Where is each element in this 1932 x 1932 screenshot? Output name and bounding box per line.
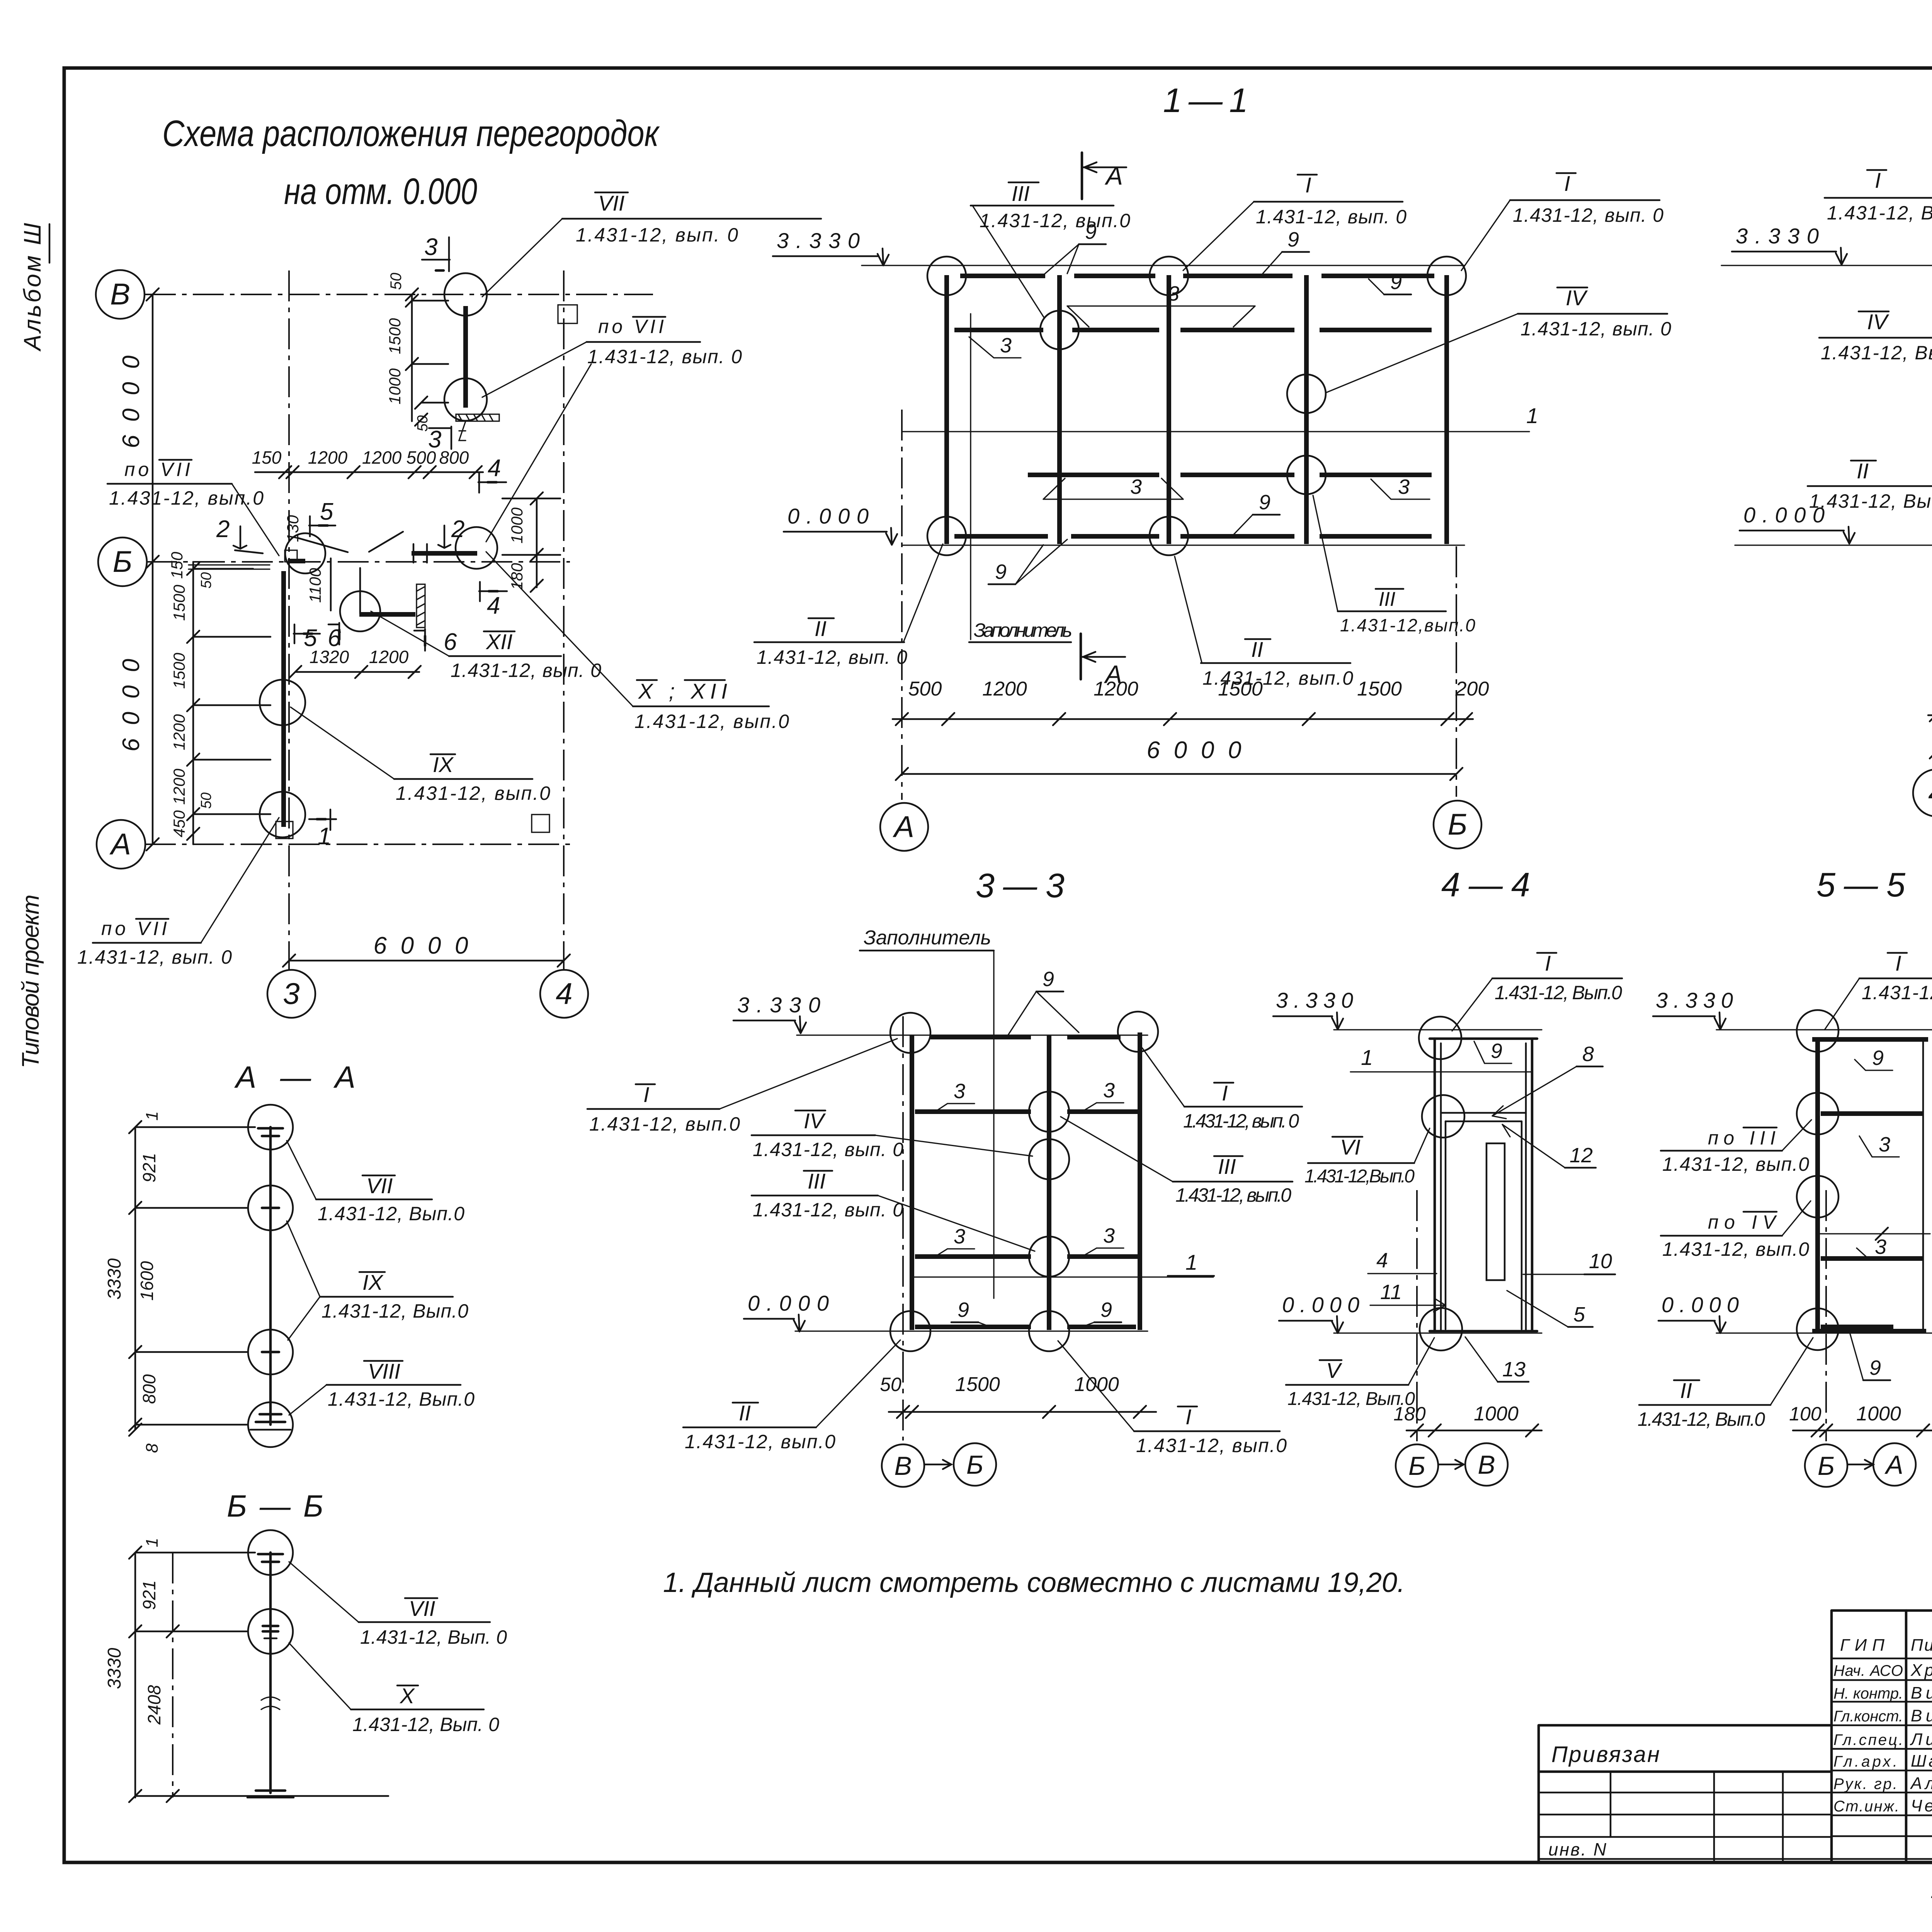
album underline bbox=[49, 224, 51, 263]
label III top-left bbox=[971, 181, 1130, 318]
svg-text:I: I bbox=[643, 1082, 650, 1107]
svg-text:V: V bbox=[1326, 1358, 1342, 1383]
small label 3 right bbox=[1371, 475, 1430, 499]
dim 1000/180 right bbox=[502, 498, 560, 587]
axis А dash-dot bbox=[901, 410, 903, 800]
svg-text:1200: 1200 bbox=[369, 647, 409, 667]
hatched bar right bbox=[417, 584, 425, 628]
small square on А axis right bbox=[532, 815, 549, 832]
svg-text:1.431-12, Вып. 0: 1.431-12, Вып. 0 bbox=[352, 1714, 499, 1735]
svg-text:Хрупало: Хрупало bbox=[1910, 1661, 1932, 1680]
svg-text:Б: Б bbox=[966, 1450, 983, 1480]
ring 4 bbox=[248, 1402, 293, 1447]
grid circle 3 bbox=[267, 970, 315, 1018]
leader ring on VII top bbox=[444, 273, 487, 316]
svg-text:800: 800 bbox=[439, 447, 469, 468]
partition bar bbox=[269, 1553, 272, 1793]
svg-text:VII: VII bbox=[366, 1173, 393, 1198]
svg-text:180: 180 bbox=[508, 563, 526, 590]
svg-text:Рук. гр.: Рук. гр. bbox=[1833, 1776, 1897, 1793]
svg-text:А: А bbox=[893, 810, 914, 844]
bottom rail bbox=[915, 1325, 1136, 1329]
ring 2 bbox=[248, 1609, 293, 1654]
section cut 2 right bbox=[438, 516, 464, 548]
svg-text:9: 9 bbox=[1491, 1039, 1502, 1063]
leader ring on VII bottom bbox=[444, 378, 487, 421]
svg-text:13: 13 bbox=[1502, 1358, 1526, 1381]
ring bottom bbox=[1420, 1308, 1462, 1350]
grid circle Б bbox=[98, 537, 147, 586]
ring at А end bbox=[260, 792, 305, 837]
svg-text:1200: 1200 bbox=[308, 447, 348, 468]
bottom rail bbox=[1812, 1329, 1926, 1333]
level line 3.330 bbox=[862, 265, 1464, 266]
bottom dim line bbox=[135, 1795, 388, 1797]
svg-text:3: 3 bbox=[1398, 475, 1410, 498]
svg-text:1.431-12, вып. 0: 1.431-12, вып. 0 bbox=[1183, 1110, 1299, 1132]
axis line Б bbox=[146, 561, 570, 563]
right edge bbox=[1922, 1039, 1924, 1331]
dim chain bbox=[889, 1411, 1156, 1413]
small square below А ring bbox=[276, 821, 293, 838]
svg-text:5: 5 bbox=[320, 498, 333, 525]
svg-text:1.431-12,Вып.0: 1.431-12,Вып.0 bbox=[1304, 1166, 1415, 1187]
svg-text:1000: 1000 bbox=[1474, 1403, 1519, 1425]
partition wall VII upper bbox=[463, 306, 468, 408]
label II bottom-mid bbox=[1175, 556, 1353, 689]
small 3 r2 b bbox=[1082, 1224, 1124, 1257]
svg-text:1. Данный лист смотреть совмес: 1. Данный лист смотреть совместно с лист… bbox=[663, 1567, 1405, 1598]
svg-text:I: I bbox=[1564, 171, 1570, 196]
svg-text:9: 9 bbox=[957, 1298, 969, 1321]
label по VII upper right bbox=[482, 316, 742, 542]
label I top bbox=[1825, 951, 1932, 1030]
svg-text:1.431-12, вып. 0: 1.431-12, вып. 0 bbox=[753, 1199, 903, 1221]
svg-text:1.431-12, вып. 0: 1.431-12, вып. 0 bbox=[1513, 204, 1663, 226]
svg-text:Нач. АСО: Нач. АСО bbox=[1833, 1662, 1903, 1679]
partition top double lines at Б bbox=[189, 565, 270, 569]
small 9 bottom a bbox=[951, 1298, 992, 1328]
break squiggle bbox=[261, 1697, 280, 1709]
svg-text:II: II bbox=[815, 616, 827, 641]
axis line 3 vertical bbox=[288, 270, 290, 970]
svg-text:100: 100 bbox=[1789, 1403, 1821, 1425]
axis Б dash-dot bbox=[1825, 1190, 1827, 1441]
svg-text:3 — 3: 3 — 3 bbox=[976, 866, 1065, 905]
small 9 top bbox=[1008, 968, 1079, 1036]
label IV right bbox=[1326, 286, 1671, 393]
svg-text:9: 9 bbox=[1872, 1046, 1884, 1070]
ring 2 bbox=[248, 1185, 293, 1230]
bottom tee bbox=[256, 1421, 285, 1423]
dim chain bbox=[893, 718, 1473, 720]
label I left bbox=[1825, 168, 1932, 270]
level mark 3.330 bbox=[773, 228, 889, 265]
svg-text:3330: 3330 bbox=[104, 1648, 125, 1689]
door frame top double bbox=[1441, 1113, 1526, 1121]
svg-text:I: I bbox=[1545, 951, 1551, 975]
cut mark А top bbox=[1082, 153, 1126, 199]
svg-text:4: 4 bbox=[487, 592, 500, 619]
ring bottom-left bbox=[890, 1311, 930, 1351]
grid circle В with arrow bbox=[882, 1444, 951, 1487]
svg-text:IV: IV bbox=[1566, 286, 1588, 310]
ring mid IV bbox=[1029, 1139, 1069, 1179]
label VI bbox=[1304, 1128, 1430, 1187]
svg-text:II: II bbox=[1680, 1378, 1692, 1403]
section cut 1 bbox=[309, 810, 336, 850]
small label 9 c bbox=[1369, 270, 1411, 294]
level mark 0.000 bbox=[1740, 503, 1855, 544]
svg-text:3.330: 3.330 bbox=[1276, 988, 1353, 1012]
svg-text:1.431-12, вып. 0: 1.431-12, вып. 0 bbox=[757, 646, 907, 668]
level mark 3.330 bbox=[733, 993, 820, 1033]
label III left bbox=[752, 1169, 1035, 1251]
top tee bbox=[258, 1553, 283, 1556]
small label 3 mid bbox=[1043, 475, 1183, 499]
axis Б dash-dot bbox=[1456, 546, 1457, 797]
svg-text:1.431-12, вып.0: 1.431-12, вып.0 bbox=[1662, 1153, 1809, 1175]
level line 3.330 bbox=[1721, 265, 1932, 266]
svg-text:Черкасова: Черкасова bbox=[1911, 1796, 1932, 1815]
grid circle 4 bbox=[1913, 769, 1932, 816]
small square at Б partition bbox=[285, 550, 297, 562]
small 10 bbox=[1523, 1250, 1615, 1274]
mid post bbox=[1047, 1036, 1051, 1330]
level mark 0.000 bbox=[784, 504, 897, 545]
svg-text:Б: Б bbox=[1818, 1451, 1835, 1481]
filler label bbox=[860, 927, 994, 1298]
vertical connector bbox=[359, 568, 361, 614]
svg-text:Лисичкин: Лисичкин bbox=[1910, 1730, 1932, 1749]
door slot bbox=[1486, 1143, 1505, 1280]
title block: staff table frame bbox=[1832, 1611, 1932, 1862]
svg-text:450: 450 bbox=[170, 810, 188, 837]
svg-text:Ст.инж.: Ст.инж. bbox=[1833, 1798, 1899, 1815]
svg-text:Заполнитель: Заполнитель bbox=[974, 619, 1072, 641]
ring right IV bbox=[1287, 374, 1326, 413]
filler label bbox=[969, 619, 1072, 642]
partition wall IX (Б to А) bbox=[281, 571, 286, 827]
svg-text:9: 9 bbox=[995, 560, 1007, 583]
rail row2 bbox=[915, 1254, 1138, 1259]
svg-text:1.431-12, Вып. 0: 1.431-12, Вып. 0 bbox=[360, 1626, 507, 1648]
small 8 bbox=[1492, 1043, 1603, 1119]
svg-text:I: I bbox=[1875, 168, 1881, 192]
svg-text:1500: 1500 bbox=[1357, 678, 1402, 700]
svg-text:Б: Б bbox=[1448, 807, 1468, 841]
ring on X/XII bbox=[340, 591, 380, 631]
small 3 r1 b bbox=[1082, 1079, 1124, 1112]
door swing at Б bbox=[285, 533, 325, 573]
svg-text:1: 1 bbox=[1361, 1045, 1373, 1070]
partition bar bbox=[269, 1127, 272, 1425]
label 1 bbox=[1168, 1250, 1214, 1276]
svg-text:Алехова: Алехова bbox=[1910, 1774, 1932, 1793]
svg-text:2408: 2408 bbox=[144, 1685, 164, 1725]
svg-text:1200: 1200 bbox=[362, 447, 402, 468]
svg-text:9: 9 bbox=[1287, 228, 1299, 251]
door bottom bbox=[1430, 1330, 1537, 1333]
label по VII left bbox=[107, 459, 279, 556]
line 1 horizontal bbox=[902, 431, 1529, 432]
label IV left bbox=[752, 1109, 1032, 1160]
ring top-right bbox=[1427, 257, 1466, 295]
svg-text:VI: VI bbox=[1340, 1135, 1361, 1159]
svg-text:500: 500 bbox=[908, 678, 942, 700]
svg-text:IV: IV bbox=[1867, 310, 1889, 334]
svg-text:3: 3 bbox=[283, 976, 299, 1010]
svg-text:1.431-12, вып.0: 1.431-12, вып.0 bbox=[980, 210, 1130, 231]
ring row mid bbox=[1797, 1176, 1838, 1218]
left overall dim line bbox=[152, 294, 154, 844]
small 13 bbox=[1465, 1337, 1529, 1382]
bottom dashes bbox=[1821, 1325, 1893, 1329]
label VII bbox=[287, 1141, 464, 1225]
ring 1 bbox=[248, 1105, 293, 1150]
label IV bbox=[1819, 310, 1932, 381]
svg-text:8: 8 bbox=[143, 1443, 162, 1453]
svg-text:VII: VII bbox=[409, 1596, 435, 1621]
svg-text:4 — 4: 4 — 4 bbox=[1441, 866, 1530, 904]
top tee bbox=[258, 1127, 283, 1130]
ring on wall IX bbox=[260, 680, 305, 725]
svg-text:3: 3 bbox=[954, 1080, 965, 1103]
ring mid-left bbox=[1040, 311, 1079, 349]
label по IV bbox=[1661, 1201, 1811, 1260]
label по III bbox=[1661, 1120, 1811, 1175]
post 1 bbox=[944, 275, 949, 544]
svg-text:I: I bbox=[1222, 1081, 1228, 1105]
level line 0.000 bbox=[902, 544, 1464, 546]
svg-text:1.431-12, Вып.0: 1.431-12, Вып.0 bbox=[1638, 1408, 1765, 1430]
ring top-right bbox=[1118, 1012, 1158, 1052]
svg-text:по VII: по VII bbox=[101, 918, 167, 939]
svg-text:8: 8 bbox=[1582, 1043, 1594, 1066]
svg-text:III: III bbox=[1012, 181, 1030, 206]
svg-text:3: 3 bbox=[1875, 1235, 1886, 1259]
small label 9 a bbox=[1043, 220, 1106, 275]
svg-text:Привязан: Привязан bbox=[1551, 1742, 1660, 1767]
svg-text:1.431-12, вып. 0: 1.431-12, вып. 0 bbox=[587, 346, 742, 367]
small label 3 left bbox=[969, 334, 1021, 358]
svg-text:II: II bbox=[1251, 637, 1263, 662]
left edge bbox=[1815, 1039, 1820, 1331]
svg-text:В: В bbox=[894, 1451, 912, 1481]
svg-text:5 — 5: 5 — 5 bbox=[1816, 866, 1906, 904]
dim 1100 vertical small bbox=[330, 558, 332, 611]
svg-text:ГИП: ГИП bbox=[1840, 1636, 1884, 1655]
svg-text:Гл.спец.: Гл.спец. bbox=[1833, 1731, 1903, 1748]
door frame inner verticals bbox=[1446, 1121, 1522, 1329]
dim vertical solid bbox=[135, 1553, 255, 1798]
svg-text:1 — 1: 1 — 1 bbox=[1163, 81, 1248, 119]
ring bottom-mid bbox=[1150, 517, 1188, 555]
svg-text:1000: 1000 bbox=[1856, 1403, 1901, 1425]
small label 9 d bbox=[1233, 491, 1280, 535]
top rail segments bbox=[960, 274, 1434, 278]
label VIII bbox=[289, 1359, 474, 1415]
svg-text:III: III bbox=[1218, 1154, 1236, 1179]
thin mid line bbox=[1818, 1233, 1930, 1234]
right edge bbox=[1138, 1032, 1142, 1330]
svg-text:А: А bbox=[1104, 162, 1123, 190]
cut mark А bottom bbox=[1081, 634, 1125, 689]
svg-text:50: 50 bbox=[880, 1374, 901, 1395]
svg-text:Н. контр.: Н. контр. bbox=[1833, 1685, 1903, 1702]
svg-text:1.431-12, вып.0: 1.431-12, вып.0 bbox=[396, 782, 550, 804]
grid circle Б bbox=[1434, 801, 1481, 849]
svg-text:1500: 1500 bbox=[386, 318, 404, 354]
svg-text:9: 9 bbox=[1085, 220, 1097, 243]
svg-text:1500: 1500 bbox=[955, 1373, 1000, 1396]
door swing diagonal mid bbox=[235, 532, 403, 553]
label II bbox=[1638, 1338, 1813, 1430]
partition X/XII horizontal bbox=[359, 612, 415, 617]
axis line А bbox=[145, 844, 576, 845]
level line 3.330 bbox=[797, 1034, 1148, 1036]
svg-text:на отм. 0.000: на отм. 0.000 bbox=[284, 171, 477, 212]
small 12 bbox=[1502, 1124, 1596, 1168]
section cut 3 top bbox=[422, 234, 450, 271]
label IX bbox=[287, 1221, 468, 1340]
axis line В bbox=[145, 294, 653, 295]
svg-text:10: 10 bbox=[1589, 1250, 1612, 1273]
line 1 bbox=[912, 1276, 1213, 1277]
left edge bbox=[910, 1036, 914, 1330]
small 3 a bbox=[1859, 1133, 1899, 1157]
level line 3.330 bbox=[1716, 1029, 1932, 1030]
svg-text:II: II bbox=[1857, 459, 1869, 483]
svg-text:1.431-12, вып. 0: 1.431-12, вып. 0 bbox=[753, 1139, 903, 1160]
section cut 2 left bbox=[216, 516, 247, 549]
svg-text:50: 50 bbox=[198, 572, 214, 588]
dim vertical bbox=[135, 1127, 255, 1430]
svg-text:1200: 1200 bbox=[170, 714, 188, 750]
svg-text:Б — Б: Б — Б bbox=[227, 1489, 323, 1523]
svg-text:Винклер: Винклер bbox=[1911, 1706, 1932, 1725]
svg-text:1.431-12, Вып.0: 1.431-12, Вып.0 bbox=[318, 1203, 464, 1225]
svg-text:0.000: 0.000 bbox=[1662, 1293, 1739, 1317]
rail row2 bbox=[1821, 1256, 1923, 1261]
post 2 bbox=[1057, 275, 1062, 544]
mid rail row 2 bbox=[1028, 473, 1432, 477]
svg-text:В: В bbox=[110, 277, 130, 311]
section cut 4 lower bbox=[479, 582, 507, 619]
svg-text:3330: 3330 bbox=[104, 1258, 125, 1299]
ring top-left bbox=[927, 257, 966, 295]
level mark 3.330 bbox=[1653, 988, 1733, 1029]
label III right bbox=[1061, 1117, 1293, 1206]
label X bbox=[289, 1643, 499, 1735]
svg-text:4: 4 bbox=[1376, 1249, 1388, 1272]
svg-text:1.431-12, Вып.0: 1.431-12, Вып.0 bbox=[1821, 342, 1932, 364]
label I top-mid bbox=[1183, 173, 1406, 270]
level line 0.000 bbox=[1735, 544, 1932, 546]
svg-text:1.431-12, вып. 0: 1.431-12, вып. 0 bbox=[576, 224, 738, 246]
small 9 bbox=[1474, 1039, 1512, 1063]
level mark 0.000 bbox=[744, 1291, 829, 1332]
svg-text:3: 3 bbox=[1168, 282, 1179, 305]
dim 6000 bbox=[902, 773, 1456, 775]
svg-text:1.431-12, вып. 0: 1.431-12, вып. 0 bbox=[1256, 206, 1406, 228]
section cut 3 bottom bbox=[428, 426, 451, 453]
svg-text:X: X bbox=[399, 1684, 415, 1708]
axis line 4 vertical bbox=[563, 270, 565, 970]
level mark 0.000 bbox=[1658, 1293, 1739, 1333]
svg-text:II: II bbox=[739, 1401, 751, 1425]
small 9 top bbox=[1855, 1046, 1893, 1070]
grid circle А bbox=[880, 803, 928, 851]
label I bottom-right bbox=[1058, 1341, 1287, 1456]
label 1 line bbox=[1350, 1045, 1531, 1072]
dim 1320/1200 bbox=[295, 671, 419, 673]
svg-text:Типовой проект: Типовой проект bbox=[17, 895, 44, 1068]
axis В dash-dot bbox=[902, 1016, 904, 1440]
svg-text:1.431-12, вып.0: 1.431-12, вып.0 bbox=[634, 711, 789, 732]
ring row1 bbox=[1797, 1093, 1838, 1134]
section cut 4 upper bbox=[478, 455, 506, 493]
ring bottom-mid bbox=[1029, 1311, 1069, 1351]
svg-text:1000: 1000 bbox=[386, 368, 404, 405]
svg-text:1.431-12, вып.0: 1.431-12, вып.0 bbox=[1202, 667, 1353, 689]
ring bottom-left bbox=[927, 517, 966, 555]
svg-text:1: 1 bbox=[143, 1111, 162, 1121]
svg-text:1200: 1200 bbox=[982, 678, 1027, 700]
svg-text:1.431-12,вып.0: 1.431-12,вып.0 bbox=[1340, 615, 1475, 635]
svg-text:0.000: 0.000 bbox=[1282, 1293, 1359, 1317]
ring 1 bbox=[248, 1530, 293, 1575]
svg-text:180: 180 bbox=[1393, 1403, 1426, 1425]
label III bottom-right bbox=[1313, 495, 1475, 635]
svg-text:А: А bbox=[1884, 1450, 1903, 1480]
svg-text:по VII: по VII bbox=[124, 459, 190, 480]
svg-text:1.431-12, Вып.0: 1.431-12, Вып.0 bbox=[1809, 490, 1932, 512]
svg-text:2: 2 bbox=[216, 516, 230, 543]
small square on В axis right bbox=[558, 305, 577, 323]
svg-text:Пивторак: Пивторак bbox=[1911, 1636, 1932, 1655]
svg-text:130: 130 bbox=[284, 515, 302, 542]
ring top-left bbox=[890, 1013, 930, 1053]
svg-text:150: 150 bbox=[168, 551, 186, 579]
grid circle Б bbox=[954, 1443, 996, 1486]
svg-text:А: А bbox=[1104, 660, 1122, 689]
ring mid row1 bbox=[1029, 1092, 1069, 1132]
filler pointer line bbox=[970, 314, 971, 639]
VII dim chain vertical bbox=[412, 294, 448, 421]
level line 0.000 bbox=[1716, 1332, 1932, 1333]
svg-text:1.431-12, вып.0: 1.431-12, вып.0 bbox=[1136, 1435, 1287, 1456]
svg-text:1: 1 bbox=[1185, 1250, 1197, 1274]
partition Б right with ring bbox=[412, 551, 477, 556]
svg-text:Заполнитель: Заполнитель bbox=[864, 927, 991, 949]
svg-text:4: 4 bbox=[488, 455, 501, 481]
label V bbox=[1286, 1338, 1434, 1409]
post 5 bbox=[1444, 275, 1449, 544]
svg-text:1.431-12, Вып.0: 1.431-12, Вып.0 bbox=[1862, 982, 1932, 1003]
svg-text:3: 3 bbox=[1879, 1133, 1890, 1156]
hatch piece below VII bbox=[456, 414, 499, 440]
svg-text:I: I bbox=[1305, 173, 1311, 197]
label I top-right bbox=[1461, 171, 1663, 270]
rail row1 bbox=[915, 1109, 1138, 1114]
svg-text:1.431-12, вып.0: 1.431-12, вып.0 bbox=[685, 1431, 835, 1452]
label VII bbox=[289, 1562, 507, 1648]
svg-text:III: III bbox=[808, 1169, 826, 1193]
svg-text:4: 4 bbox=[1928, 776, 1932, 810]
svg-text:Винклер: Винклер bbox=[1911, 1684, 1932, 1702]
level mark 3.330 bbox=[1273, 988, 1353, 1029]
